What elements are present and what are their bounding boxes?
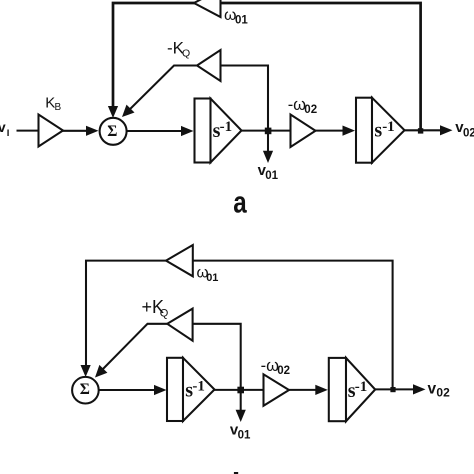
- integrator U1 (a): [195, 99, 242, 163]
- wire: feedback from v_o2 node up and across to w01 amplifier (b): [193, 261, 393, 390]
- svg-text:01: 01: [238, 430, 251, 442]
- svg-text:Σ: Σ: [107, 123, 117, 140]
- svg-text:s: s: [374, 120, 382, 142]
- svg-text:v: v: [428, 381, 437, 398]
- wire: feedback from v_o2 node up over the top to summer (a) with arrowhead: [108, 3, 421, 131]
- svg-text:01: 01: [265, 170, 278, 182]
- integrator U2 (a): [356, 98, 405, 163]
- svg-text:01: 01: [206, 272, 218, 284]
- label w01 (b): [197, 265, 219, 284]
- svg-text:02: 02: [304, 104, 317, 116]
- svg-text:-1: -1: [192, 378, 205, 394]
- svg-text:B: B: [55, 102, 62, 113]
- integrator U4 (b): [329, 358, 375, 421]
- wire: -w02 output to integrator U4 (b) with arrowhead: [289, 385, 328, 395]
- amplifier w01 (a), clipped at top edge: [194, 0, 221, 17]
- label -w02 (a): [288, 96, 317, 116]
- svg-text:02: 02: [436, 386, 450, 400]
- label v_o1 (b): [230, 421, 251, 441]
- node: v_o2 junction dot (a): [418, 128, 423, 133]
- amplifier -K_Q (a): [197, 50, 221, 81]
- summing junction S1 (a): [100, 118, 127, 145]
- svg-text:02: 02: [463, 128, 474, 140]
- label -w02 (b): [261, 357, 290, 377]
- svg-text:Σ: Σ: [80, 381, 90, 398]
- amplifier -w02 (a): [291, 115, 316, 148]
- svg-text:02: 02: [277, 365, 290, 377]
- svg-text:-1: -1: [220, 119, 233, 135]
- label v_I input (a): [0, 119, 9, 139]
- amplifier K_B (a): [39, 115, 64, 147]
- wire: v_o1 node up to +K_Q amplifier input (b): [193, 324, 241, 390]
- wire: summer output to integrator U1 (a) with arrowhead: [127, 126, 194, 136]
- label v_o2 (a): [455, 119, 474, 140]
- wire: input v_I to K_B amplifier (a): [17, 130, 40, 132]
- wire: -w02 output to integrator U2 (a) with arrowhead: [316, 126, 356, 136]
- label v_o1 (a): [258, 162, 279, 182]
- svg-text:-1: -1: [355, 379, 368, 395]
- wire: U3 output to -w02 amplifier (b) through node: [215, 389, 264, 391]
- svg-text:Q: Q: [160, 308, 169, 320]
- node: v_o1 junction dot (b): [237, 387, 244, 394]
- wire: U1 output to -w02 amplifier (a) through node: [242, 130, 291, 132]
- wire: U4 output to v_o2 (b) with arrowhead: [375, 384, 425, 394]
- svg-text:01: 01: [235, 14, 248, 26]
- node: v_o1 junction dot (a): [265, 128, 272, 135]
- integrator U3 (b): [167, 358, 215, 421]
- wire: U2 output to v_o2 (a) with arrowhead: [405, 125, 453, 135]
- svg-text:a: a: [233, 185, 247, 220]
- svg-text:v: v: [0, 119, 6, 135]
- wire: v_o1 tap arrow down (a): [263, 131, 273, 163]
- wire: -K_Q output diagonal down to summer (a) with arrowhead: [122, 66, 197, 118]
- svg-text:-1: -1: [382, 119, 395, 135]
- amplifier -w02 (b): [264, 374, 290, 406]
- svg-text:b: b: [232, 466, 251, 474]
- summing junction S2 (b): [72, 377, 99, 404]
- amplifier +K_Q (b): [167, 309, 192, 341]
- wire: v_o1 tap arrow down (b): [236, 390, 246, 422]
- wire: v_o1 node up to -K_Q amplifier input (a): [221, 66, 269, 132]
- wire: summer output to integrator U3 (b) with arrowhead: [99, 385, 167, 395]
- node: v_o2 junction dot (b): [390, 387, 395, 392]
- label -K_Q (a): [167, 38, 190, 59]
- label +K_Q (b): [142, 297, 169, 320]
- label K_B (a): [45, 95, 61, 113]
- svg-text:I: I: [7, 128, 10, 139]
- label v_o2 (b): [428, 381, 451, 400]
- svg-text:Q: Q: [182, 47, 190, 59]
- amplifier w01 (b): [166, 245, 193, 276]
- label w01 (a): [224, 7, 248, 26]
- wire: K_B output to summer input (a) with arrowhead: [63, 126, 99, 136]
- wire: +K_Q output diagonal down to summer (b) with arrowhead: [95, 324, 167, 378]
- wire: w01 output left then down to summer (b) with arrowhead: [81, 261, 167, 377]
